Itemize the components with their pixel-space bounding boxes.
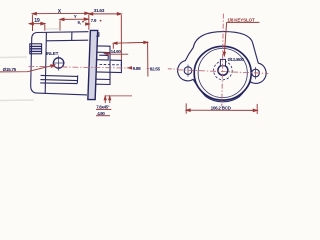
centreline dashes between texts: [147, 67, 177, 70]
svg-text:Ø15.75: Ø15.75: [3, 67, 17, 72]
svg-text:9.88: 9.88: [133, 66, 141, 71]
mounting flange plate (edge view): [88, 30, 98, 99]
svg-text:INLET: INLET: [46, 51, 59, 56]
body inner step lines: [46, 39, 88, 42]
106.2 BCD dimension: [186, 103, 257, 114]
dim X line: [32, 12, 88, 14]
svg-text:82.55: 82.55: [150, 66, 161, 71]
shaft circle: [218, 65, 228, 75]
svg-text:4.90: 4.90: [97, 111, 105, 116]
dim 19 line: [29, 23, 44, 25]
big bold pilot circle: [194, 46, 251, 100]
bolt hole left: [184, 65, 192, 77]
pump body outline: [31, 32, 89, 95]
fraction underlines: [96, 108, 111, 110]
body inner vertical: [45, 32, 46, 93]
lower boss lines: [40, 75, 77, 83]
svg-text:7.9: 7.9: [91, 18, 97, 23]
svg-text:9,: 9,: [78, 20, 82, 25]
faint scan streaks: [0, 29, 60, 101]
svg-text:14.60: 14.60: [111, 49, 122, 54]
dim Y line: [60, 18, 88, 20]
14.60 underline: [110, 53, 128, 55]
thin inner circle: [198, 48, 247, 97]
svg-text:19: 19: [34, 18, 40, 24]
9.88 left arrow on centreline: [128, 67, 132, 69]
outer flange outline: [178, 32, 267, 102]
14.60 pointer arrow: [105, 53, 111, 55]
dim 7.9 arrow: [86, 23, 90, 25]
bottom 4.90 leaders: [105, 95, 132, 97]
keyslot: [220, 59, 225, 65]
horizontal centreline right view: [177, 70, 269, 74]
shaft keyway hidden line: [100, 63, 122, 66]
extension lines: [31, 15, 33, 31]
dim 14.60 line: [113, 41, 147, 44]
inlet port circle: [53, 56, 65, 71]
svg-text:31.63: 31.63: [94, 8, 105, 14]
svg-text:7.6x45°: 7.6x45°: [96, 104, 110, 109]
vertical centreline: [222, 14, 224, 107]
hidden bore circle: [214, 61, 233, 80]
svg-text:Ø13.4600: Ø13.4600: [228, 57, 245, 62]
left rear port boss: [30, 44, 42, 54]
centreline left view: [28, 66, 131, 68]
svg-text:1/8 KEYSLOT: 1/8 KEYSLOT: [227, 17, 255, 22]
O15.75 leader: [0, 65, 54, 72]
bolt hole right: [252, 67, 260, 79]
dim 31.63 line: [89, 13, 122, 15]
shaft / bearing block right of flange: [95, 32, 121, 84]
svg-text:106.2 BCD: 106.2 BCD: [211, 105, 232, 110]
